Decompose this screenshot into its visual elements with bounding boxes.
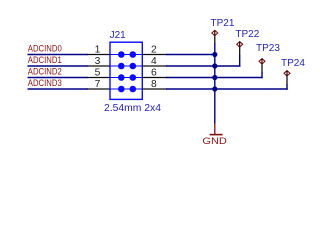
- svg-text:J21: J21: [110, 30, 127, 41]
- wire pin 6 to TP23 corner: [166, 77, 263, 79]
- connector J21 contact dot pin1: [118, 51, 125, 58]
- junction dot row 3: [212, 75, 217, 80]
- pin stub 1: [88, 54, 111, 56]
- pin stub 5: [88, 77, 111, 79]
- connector J21 body: [110, 42, 142, 99]
- wire ADCIND2 to pin 5: [28, 77, 89, 79]
- svg-text:8: 8: [151, 79, 157, 90]
- wire ADCIND1 to pin 3: [28, 65, 89, 67]
- ground symbol stub: [214, 123, 216, 135]
- svg-text:4: 4: [151, 56, 157, 67]
- testpoint TP24 pin: [286, 70, 288, 84]
- testpoint TP24 diamond: [284, 71, 290, 76]
- vertical bus wire to GND: [214, 43, 216, 124]
- testpoint TP22 diamond: [237, 42, 243, 47]
- svg-text:6: 6: [151, 67, 157, 78]
- pin stub 7: [88, 88, 111, 90]
- connector J21 internal row line 4: [110, 88, 142, 90]
- connector J21 contact dot pin8: [130, 86, 137, 93]
- wire TP22 vertical: [239, 55, 241, 67]
- wire ADCIND0 to pin 1: [28, 54, 89, 56]
- svg-text:ADCIND3: ADCIND3: [28, 78, 62, 89]
- connector J21 contact dot pin3: [118, 63, 125, 70]
- svg-text:TP23: TP23: [256, 43, 280, 54]
- connector J21 contact dot pin7: [118, 86, 125, 93]
- connector J21 contact dot pin2: [130, 51, 137, 58]
- svg-text:2: 2: [151, 44, 157, 55]
- junction dot row 2: [212, 63, 217, 68]
- junction dot row 1: [212, 52, 217, 57]
- wire TP23 vertical: [261, 72, 263, 78]
- testpoint TP22 diamond pin line inside: [239, 42, 241, 47]
- testpoint TP21 diamond pin line inside: [214, 31, 216, 36]
- junction dot row 4: [212, 86, 217, 91]
- wire ADCIND3 to pin 7: [28, 88, 89, 90]
- pin stub 3: [88, 65, 111, 67]
- connector J21 internal row line 1: [110, 54, 142, 56]
- pin stub 2: [142, 54, 167, 56]
- connector J21 internal row line 3: [110, 77, 142, 79]
- connector J21 contact dot pin4: [130, 63, 137, 70]
- svg-text:5: 5: [95, 67, 101, 78]
- svg-text:TP21: TP21: [211, 18, 235, 29]
- svg-text:ADCIND2: ADCIND2: [28, 67, 62, 78]
- testpoint TP21 diamond: [212, 30, 218, 35]
- connector J21 contact dot pin6: [130, 74, 137, 81]
- testpoint TP22 pin: [239, 41, 241, 55]
- pin stub 8: [142, 88, 167, 90]
- wire pin 8 to TP24 corner: [166, 88, 288, 90]
- wire pin 4 to TP22 corner: [166, 65, 240, 67]
- svg-text:ADCIND0: ADCIND0: [28, 44, 62, 55]
- svg-text:TP24: TP24: [281, 58, 305, 69]
- pin stub 6: [142, 77, 167, 79]
- ground symbol bar: [210, 134, 223, 136]
- svg-text:TP22: TP22: [235, 29, 259, 40]
- testpoint TP24 diamond pin line inside: [286, 71, 288, 76]
- testpoint TP23 pin: [261, 58, 263, 72]
- svg-text:ADCIND1: ADCIND1: [28, 55, 62, 66]
- testpoint TP23 diamond pin line inside: [261, 59, 263, 64]
- testpoint TP21 pin: [214, 30, 216, 43]
- connector J21 contact dot pin5: [118, 74, 125, 81]
- testpoint TP23 diamond: [259, 59, 265, 64]
- svg-text:7: 7: [95, 79, 101, 90]
- svg-text:GND: GND: [202, 136, 227, 147]
- pin stub 4: [142, 65, 167, 67]
- wire TP24 vertical: [286, 84, 288, 90]
- wire pin 2 to bus junction: [166, 54, 215, 56]
- svg-text:1: 1: [95, 44, 101, 55]
- svg-text:2.54mm 2x4: 2.54mm 2x4: [104, 103, 161, 114]
- svg-text:3: 3: [95, 56, 101, 67]
- connector J21 internal row line 2: [110, 65, 142, 67]
